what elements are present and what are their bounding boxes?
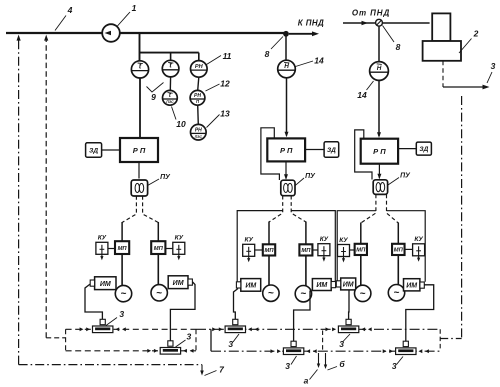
label 3 leader (top right) bbox=[487, 72, 492, 83]
wire: MP to motor (left) bbox=[121, 254, 123, 286]
svg-text:4: 4 bbox=[67, 5, 73, 15]
actuator IM box bbox=[95, 277, 116, 290]
pipe jog to riser bbox=[440, 338, 461, 340]
pipe connector (x211) bbox=[210, 329, 212, 351]
svg-text:Р П: Р П bbox=[133, 146, 146, 155]
wire: MP to motor (right) bbox=[397, 255, 399, 285]
IM tab bbox=[331, 282, 335, 288]
control key KU box bbox=[243, 244, 255, 256]
setpoint ZD box (group 1) bbox=[86, 143, 102, 157]
electric motor bbox=[263, 285, 279, 301]
svg-text:11: 11 bbox=[223, 51, 232, 61]
svg-text:ИМ: ИМ bbox=[100, 281, 111, 288]
valve 3 body bbox=[338, 326, 358, 333]
magnetic starter MP box bbox=[299, 244, 312, 255]
drain pipe A (upper, dash-dot part) bbox=[196, 328, 440, 330]
control wire (left, dashed) bbox=[269, 196, 283, 222]
svg-text:ПЗС: ПЗС bbox=[166, 100, 174, 104]
label PU leader bbox=[388, 178, 399, 186]
KU key symbol bbox=[178, 245, 180, 258]
drain pipe B (lower right, dash-dot) bbox=[211, 350, 440, 352]
arrow to K PND bbox=[289, 33, 315, 35]
control wire (right, dashed) bbox=[143, 196, 159, 223]
electric motor bbox=[115, 285, 131, 301]
wire: stub to sensor 11 bbox=[198, 53, 200, 61]
label 12 leader bbox=[206, 84, 220, 91]
position feedback bracket (right) bbox=[387, 211, 426, 282]
wire: actuator to valve (group3 left) bbox=[348, 290, 350, 321]
label 3 leader bbox=[176, 340, 186, 347]
node 8 (to LP heater) junction bbox=[283, 31, 289, 37]
svg-text:~: ~ bbox=[121, 289, 127, 300]
IM tab bbox=[420, 282, 424, 288]
KU key symbol bbox=[418, 246, 420, 259]
svg-text:8: 8 bbox=[265, 49, 270, 59]
electric motor bbox=[355, 285, 371, 301]
wire: MP to motor (right) bbox=[305, 256, 307, 286]
wire: MP to KU bbox=[165, 248, 172, 250]
control wire left to MP bbox=[268, 222, 270, 245]
svg-text:МП: МП bbox=[265, 248, 275, 254]
label 8 leader (group 2) bbox=[271, 37, 283, 50]
svg-text:Н: Н bbox=[284, 63, 289, 70]
regulator RP box (group 2) bbox=[267, 138, 305, 161]
svg-text:Р П: Р П bbox=[280, 146, 293, 155]
svg-text:~: ~ bbox=[300, 289, 306, 300]
vessel 2 neck bbox=[432, 13, 450, 41]
magnetic starter MP box bbox=[355, 244, 367, 255]
wire: MP to motor (left) bbox=[360, 255, 362, 285]
actuator IM box bbox=[241, 279, 261, 292]
svg-text:ПУ: ПУ bbox=[305, 173, 316, 180]
sensor 9a (t) bbox=[131, 61, 148, 78]
magnetic starter MP box bbox=[392, 244, 405, 255]
pipe fitting marks bbox=[271, 349, 275, 353]
wire: sensor to RP (group 3) bbox=[378, 80, 380, 136]
svg-text:КУ: КУ bbox=[339, 237, 348, 244]
continuation arrow b bbox=[325, 353, 327, 367]
svg-text:б: б bbox=[339, 359, 345, 369]
label PU leader bbox=[148, 179, 159, 186]
label b leader bbox=[328, 367, 338, 371]
valve 3 body bbox=[283, 348, 303, 355]
wire: RP to PU bbox=[285, 161, 287, 178]
KU key symbol bbox=[248, 247, 250, 260]
wire: actuator to valve (group2 left) bbox=[234, 289, 239, 321]
sensor 13 (RN/PZS) bbox=[191, 124, 207, 140]
control key KU box bbox=[318, 244, 330, 256]
electric motor bbox=[295, 286, 311, 302]
svg-text:3: 3 bbox=[491, 61, 496, 71]
wire: node 8 to level sensor 14 (group 3) bbox=[378, 26, 380, 62]
label 3 leader bbox=[233, 334, 239, 342]
svg-text:РН: РН bbox=[195, 127, 202, 133]
manual control unit PU bbox=[373, 180, 387, 195]
label 13 leader bbox=[207, 115, 220, 128]
svg-text:Р П: Р П bbox=[373, 147, 386, 156]
valve stem bbox=[346, 319, 351, 324]
pump/flow element 1 bbox=[102, 24, 120, 42]
svg-text:ИМ: ИМ bbox=[245, 283, 256, 290]
wire: stub to sensor 9b bbox=[170, 53, 172, 61]
dash-dot riser (right side) bbox=[461, 96, 463, 339]
continuation arrow a bbox=[318, 353, 320, 366]
label 1 leader bbox=[117, 12, 130, 27]
actuator IM box bbox=[312, 279, 331, 291]
svg-text:ПУ: ПУ bbox=[160, 174, 171, 181]
svg-text:МП: МП bbox=[356, 248, 366, 254]
vessel 2 body bbox=[423, 41, 461, 61]
control key KU box bbox=[413, 244, 425, 256]
wire: MP to KU bbox=[312, 249, 318, 251]
wire: MP to motor (left) bbox=[268, 256, 270, 286]
wire: ZD to RP bbox=[398, 148, 416, 150]
sensor 12 (RN/P) bbox=[190, 90, 205, 105]
svg-text:ИМ: ИМ bbox=[406, 282, 417, 289]
svg-text:14: 14 bbox=[357, 90, 367, 100]
electric motor bbox=[388, 285, 404, 301]
pipe fitting marks bbox=[80, 327, 84, 331]
line 7 end arrow bbox=[201, 365, 203, 373]
valve 3 body bbox=[93, 326, 113, 333]
pipe right-end connector bbox=[439, 329, 441, 351]
svg-text:КУ: КУ bbox=[175, 235, 184, 242]
valve 3 body bbox=[225, 326, 245, 333]
manual control unit PU bbox=[131, 180, 147, 196]
pipe fitting marks bbox=[383, 349, 387, 353]
svg-text:2: 2 bbox=[473, 29, 479, 39]
label 11 leader bbox=[207, 56, 222, 65]
dashed line (left) bbox=[45, 38, 47, 338]
bottom dash-dot line 7 bbox=[19, 364, 202, 366]
position feedback bracket (right) bbox=[291, 211, 335, 282]
valve stem bbox=[168, 341, 173, 346]
wire: sensor branch header bbox=[140, 52, 199, 54]
regulator RP box (group 3) bbox=[361, 139, 398, 164]
control wire right to MP bbox=[305, 222, 307, 245]
svg-text:3: 3 bbox=[285, 361, 290, 371]
dashed jog to pipes (bottom left) bbox=[46, 337, 65, 339]
svg-text:ПУ: ПУ bbox=[400, 173, 411, 180]
svg-text:РН: РН bbox=[195, 64, 204, 70]
label 3 leader bbox=[106, 318, 117, 326]
control wire (right, dashed) bbox=[387, 194, 399, 223]
electric motor bbox=[151, 285, 167, 301]
continuation line a-b bbox=[322, 331, 324, 352]
sensor 10 (t/PZS) bbox=[163, 90, 178, 105]
wire: sensor 12 to sensor 13 bbox=[197, 105, 200, 124]
svg-text:ЗД: ЗД bbox=[327, 147, 336, 154]
label 9 leaders bbox=[147, 83, 164, 93]
dash-dot return line (left, item 4 area) bbox=[18, 38, 20, 365]
label 4 leader bbox=[55, 16, 66, 31]
actuator IM box bbox=[404, 279, 420, 291]
svg-text:а: а bbox=[304, 376, 309, 386]
wire: sensor to RP (group 2) bbox=[286, 78, 288, 136]
wire: KU to MP bbox=[255, 249, 263, 251]
level sensor 14 (group 2) bbox=[278, 60, 296, 78]
control key KU box bbox=[173, 242, 185, 254]
KU key symbol bbox=[343, 247, 345, 261]
control wire (left, dashed) bbox=[122, 196, 136, 223]
level sensor 14 (group 3) bbox=[370, 62, 389, 81]
IM tab bbox=[336, 281, 340, 287]
setpoint ZD box (group 3) bbox=[416, 142, 431, 155]
svg-text:ЗД: ЗД bbox=[89, 148, 98, 155]
svg-text:РН: РН bbox=[194, 93, 201, 99]
node 8 (from LP heater) junction bbox=[376, 19, 383, 26]
label 7 leader bbox=[205, 371, 217, 376]
control wire (right, dashed) bbox=[291, 196, 306, 222]
pipe fitting marks bbox=[326, 327, 330, 331]
position feedback bracket (left) bbox=[237, 211, 283, 282]
svg-text:МП: МП bbox=[118, 246, 128, 252]
svg-text:13: 13 bbox=[220, 109, 230, 119]
label a leader bbox=[310, 370, 318, 380]
svg-text:1: 1 bbox=[132, 3, 137, 13]
control wire (left, dashed) bbox=[361, 194, 376, 223]
wire: actuator to valve (group3 right) bbox=[406, 285, 434, 342]
svg-text:10: 10 bbox=[176, 119, 186, 129]
svg-text:ИМ: ИМ bbox=[173, 280, 184, 287]
svg-text:ПЗС: ПЗС bbox=[195, 135, 203, 139]
svg-text:Н: Н bbox=[377, 65, 382, 72]
valve 3 body bbox=[160, 348, 180, 355]
drain pipe A (upper, dashed part) bbox=[66, 328, 196, 330]
label PU leader bbox=[295, 178, 304, 186]
wire: actuator to valve (group1 right) bbox=[170, 282, 195, 342]
IM tab bbox=[90, 280, 94, 286]
svg-text:~: ~ bbox=[394, 288, 400, 299]
wire: KU to MP bbox=[108, 248, 115, 250]
svg-text:3: 3 bbox=[119, 309, 124, 319]
wire: actuator to valve (group2 right) bbox=[294, 291, 310, 343]
svg-text:К ПНД: К ПНД bbox=[298, 19, 324, 28]
svg-text:8: 8 bbox=[396, 42, 401, 52]
label 3 leader bbox=[291, 356, 297, 365]
label 14 leader (group 2) bbox=[296, 61, 314, 67]
actuator IM box bbox=[168, 276, 188, 289]
vessel drain arrow 3 bbox=[443, 86, 486, 88]
svg-text:~: ~ bbox=[156, 288, 162, 299]
svg-text:КУ: КУ bbox=[320, 236, 329, 243]
wire: RP to PU bbox=[378, 164, 380, 179]
svg-text:МП: МП bbox=[154, 246, 164, 252]
IM tab bbox=[236, 282, 240, 288]
svg-text:КУ: КУ bbox=[414, 236, 423, 243]
svg-text:9: 9 bbox=[151, 92, 156, 102]
label 3 leader bbox=[397, 357, 404, 365]
wire: MP to KU bbox=[405, 248, 413, 250]
svg-text:3: 3 bbox=[228, 339, 233, 349]
magnetic starter MP box bbox=[151, 241, 165, 254]
wire: RP to PU bbox=[138, 162, 140, 179]
pipe fitting marks bbox=[212, 327, 216, 331]
control wire right to MP bbox=[157, 222, 159, 241]
wire: actuator to valve (group1 left) bbox=[85, 284, 102, 321]
main steam/condensate line (top) bbox=[6, 32, 286, 34]
svg-text:ИМ: ИМ bbox=[316, 282, 327, 289]
control wire left to MP bbox=[121, 222, 123, 241]
KU key symbol bbox=[323, 246, 325, 260]
label 2 leader bbox=[459, 39, 472, 54]
svg-text:3: 3 bbox=[339, 339, 344, 349]
wire: ZD to RP bbox=[305, 149, 324, 151]
sensor 11 (RN) bbox=[191, 61, 208, 78]
svg-text:ИМ: ИМ bbox=[343, 282, 354, 289]
wire: sensor 11 to sensor 12 bbox=[198, 77, 199, 90]
actuator IM box bbox=[341, 278, 356, 290]
svg-text:14: 14 bbox=[314, 56, 324, 66]
svg-text:МП: МП bbox=[394, 248, 404, 254]
wire: MP to motor (right) bbox=[157, 254, 159, 285]
vessel drain line (dashed) bbox=[442, 61, 444, 87]
wire: sensor 9a to regulator RP (group 1) bbox=[139, 78, 141, 137]
valve stem bbox=[100, 319, 105, 324]
wire: drop from main line to sensor branch bbox=[139, 33, 141, 61]
label 14 leader (group 3) bbox=[367, 81, 374, 90]
control key KU box bbox=[96, 242, 108, 254]
svg-text:~: ~ bbox=[360, 288, 366, 299]
position feedback bracket (left) bbox=[337, 211, 376, 281]
label 3 leader bbox=[343, 334, 350, 342]
pipe connector (x66) bbox=[65, 329, 67, 351]
svg-text:ЗД: ЗД bbox=[419, 146, 428, 153]
magnetic starter MP box bbox=[263, 244, 275, 255]
svg-text:3: 3 bbox=[392, 361, 397, 371]
label 10 leader bbox=[172, 107, 177, 120]
regulator RP box (group 1) bbox=[120, 138, 158, 162]
svg-text:КУ: КУ bbox=[98, 235, 107, 242]
wire: RP feedback loop bbox=[261, 128, 280, 180]
control wire left to MP bbox=[360, 223, 362, 244]
valve stem bbox=[291, 341, 296, 346]
svg-text:От ПНД: От ПНД bbox=[352, 9, 390, 18]
label 8 leader (group 3) bbox=[383, 26, 395, 43]
magnetic starter MP box bbox=[115, 241, 129, 254]
control key KU box bbox=[338, 245, 350, 257]
sensor 9b (t) bbox=[162, 60, 179, 77]
pipe fitting marks bbox=[147, 349, 151, 353]
wire: node 8 to level sensor 14 bbox=[285, 34, 287, 61]
svg-text:12: 12 bbox=[220, 79, 230, 89]
wire: KU to MP bbox=[350, 249, 355, 251]
valve stem bbox=[233, 319, 238, 324]
svg-text:КУ: КУ bbox=[244, 237, 253, 244]
KU key symbol bbox=[101, 245, 103, 258]
svg-text:МП: МП bbox=[301, 248, 311, 254]
svg-text:3: 3 bbox=[187, 331, 192, 341]
drain pipe B (lower left, dashed) bbox=[66, 350, 196, 352]
pipe connector (x196) bbox=[195, 329, 197, 351]
valve stem bbox=[403, 341, 408, 346]
IM tab bbox=[188, 279, 192, 285]
wire: sensor 9b to sensor 10 bbox=[169, 77, 171, 91]
setpoint ZD box (group 2) bbox=[324, 142, 339, 157]
wire: RP feedback loop bbox=[355, 130, 372, 180]
wire: ZD to RP bbox=[102, 149, 120, 151]
control wire right to MP bbox=[397, 223, 399, 244]
svg-text:~: ~ bbox=[268, 288, 274, 299]
line from LP heater (Ot PND) bbox=[343, 22, 430, 24]
manual control unit PU bbox=[281, 180, 295, 196]
valve 3 body bbox=[396, 348, 416, 355]
